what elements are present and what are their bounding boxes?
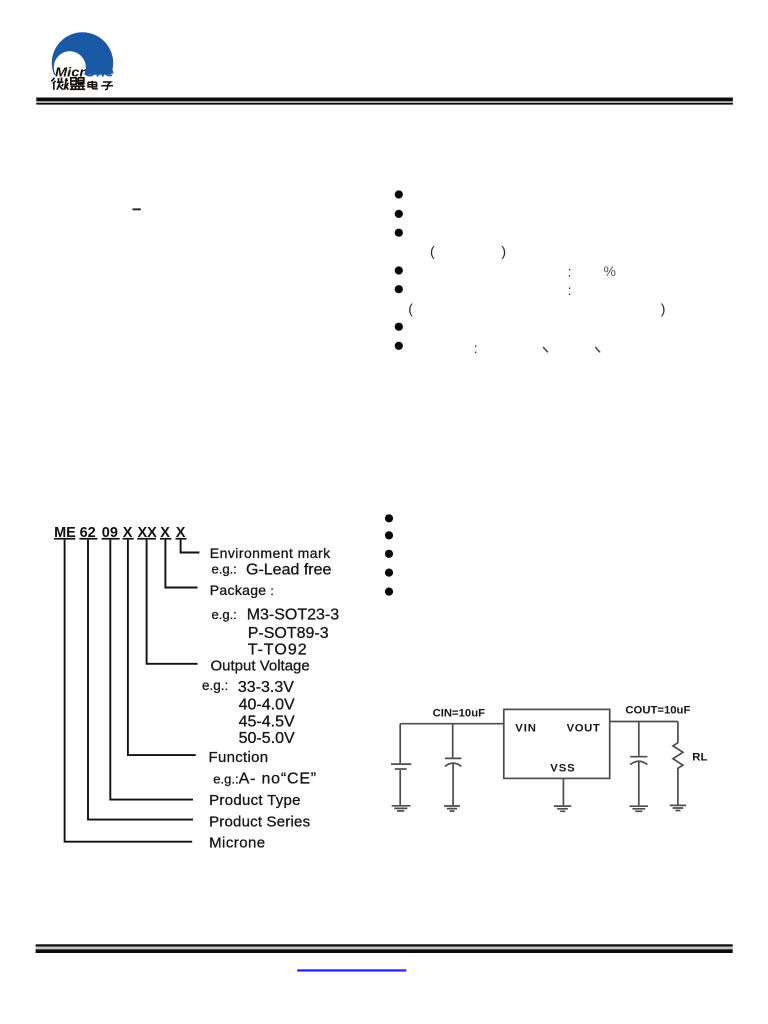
svg-text:CIN=10uF: CIN=10uF bbox=[433, 708, 486, 720]
svg-text:T-TO92: T-TO92 bbox=[248, 641, 308, 658]
svg-text:Environment mark: Environment mark bbox=[210, 545, 331, 561]
svg-text:Function: Function bbox=[209, 749, 269, 766]
svg-text:e.g.:: e.g.: bbox=[212, 562, 237, 577]
svg-text:(: ( bbox=[430, 243, 435, 259]
svg-text:P-SOT89-3: P-SOT89-3 bbox=[248, 625, 329, 642]
svg-text:40-4.0V: 40-4.0V bbox=[239, 697, 295, 714]
svg-text:Product Type: Product Type bbox=[209, 792, 301, 809]
svg-text::: : bbox=[568, 263, 572, 279]
svg-text:RL: RL bbox=[692, 751, 707, 763]
svg-text:e.g.:A- no“CE”: e.g.:A- no“CE” bbox=[213, 771, 317, 788]
svg-text:33-3.3V: 33-3.3V bbox=[238, 679, 294, 696]
svg-text:VSS: VSS bbox=[550, 762, 575, 774]
svg-text:): ) bbox=[501, 243, 506, 259]
svg-text:%: % bbox=[604, 263, 616, 279]
svg-text:M3-SOT23-3: M3-SOT23-3 bbox=[247, 607, 340, 624]
svg-text:G-Lead free: G-Lead free bbox=[246, 562, 331, 579]
svg-text::: : bbox=[568, 282, 572, 298]
svg-text::: : bbox=[474, 340, 478, 356]
svg-text:Output Voltage: Output Voltage bbox=[211, 658, 310, 675]
svg-text:45-4.5V: 45-4.5V bbox=[239, 713, 295, 730]
svg-text:50-5.0V: 50-5.0V bbox=[239, 730, 295, 747]
svg-text:Microne: Microne bbox=[209, 834, 266, 851]
svg-text:Package:: Package: bbox=[210, 582, 274, 598]
svg-text:Product Series: Product Series bbox=[209, 813, 310, 830]
svg-text:e.g.:: e.g.: bbox=[202, 678, 228, 693]
svg-text:): ) bbox=[661, 300, 666, 316]
svg-text:e.g.:: e.g.: bbox=[212, 607, 237, 622]
svg-text:COUT=10uF: COUT=10uF bbox=[625, 705, 690, 717]
svg-text:VOUT: VOUT bbox=[567, 723, 601, 735]
svg-text:One: One bbox=[84, 66, 114, 80]
svg-text:VIN: VIN bbox=[515, 723, 537, 735]
svg-text:(: ( bbox=[408, 300, 413, 316]
